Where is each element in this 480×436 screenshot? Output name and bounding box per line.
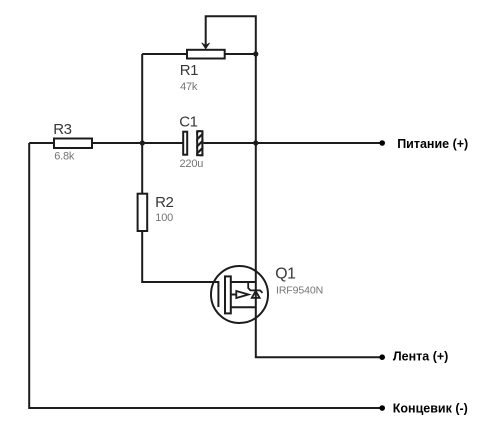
Q1 source stub (231, 306, 256, 308)
svg-text:Q1: Q1 (275, 266, 296, 283)
wire R1 wiper loop (206, 16, 256, 54)
resistor R3 (54, 139, 92, 149)
svg-text:R3: R3 (53, 121, 71, 138)
wire R1 left lead (142, 53, 187, 55)
terminal dot Лента (379, 354, 385, 360)
wire R3 right lead (92, 142, 142, 144)
svg-text:C1: C1 (179, 113, 197, 130)
resistor R2 (138, 194, 148, 231)
wire R3 left lead (29, 142, 54, 144)
junction at R1 right (253, 51, 258, 56)
Q1 channel bar (225, 276, 231, 313)
wire main vertical drain rail (256, 54, 382, 357)
svg-text:Питание (+): Питание (+) (397, 137, 468, 151)
transistor Q1 body circle (211, 266, 268, 323)
wire left branch vertical (R1 left to R2 top) (141, 54, 143, 194)
svg-text:220u: 220u (180, 158, 204, 170)
R1 wiper arrowhead (202, 43, 210, 49)
svg-text:IRF9540N: IRF9540N (276, 284, 323, 296)
wire left rail to Концевик (29, 143, 382, 408)
wire power line to terminal (256, 142, 382, 144)
resistor R1 (potentiometer body) (187, 50, 225, 59)
Q1 body diode triangle (252, 291, 260, 298)
svg-text:R2: R2 (155, 194, 173, 211)
terminal dot Питание (379, 140, 385, 146)
Q1 drain stub (231, 281, 256, 283)
wire C1 right lead (203, 142, 255, 144)
Q1 gate bar (217, 281, 219, 307)
Q1 body stub (231, 294, 237, 296)
capacitor C1 right plate (hatched) (192, 122, 208, 173)
junction C1 right / supply node (253, 140, 258, 145)
Q1 substrate arrow (236, 291, 248, 298)
wire R2 bottom to Q1 gate (142, 231, 217, 282)
svg-text:100: 100 (155, 212, 173, 224)
wire C1 left lead (142, 142, 183, 144)
svg-text:Лента (+): Лента (+) (393, 349, 448, 363)
wire R1 right lead (225, 53, 256, 55)
svg-text:R1: R1 (180, 62, 198, 79)
capacitor C1 left plate (183, 132, 187, 155)
svg-text:47k: 47k (180, 81, 198, 93)
junction C1 left node (140, 140, 145, 145)
Q1 body diode cathode link (zener-style bar) (248, 282, 262, 293)
svg-text:Концевик (-): Концевик (-) (393, 401, 468, 415)
terminal dot Концевик (379, 405, 385, 411)
svg-text:6.8k: 6.8k (54, 151, 75, 163)
